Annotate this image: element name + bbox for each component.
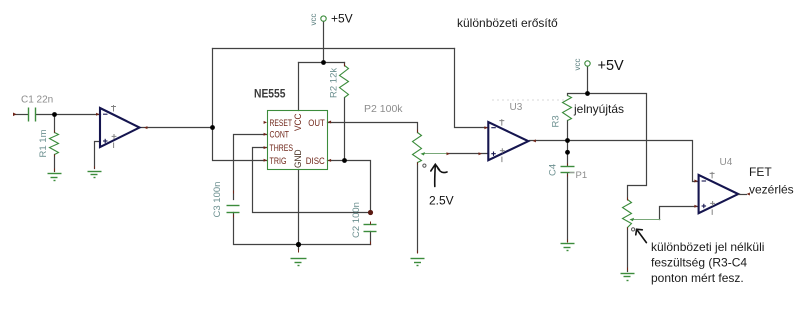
wire op-amp U1 output to node B: [141, 127, 213, 129]
annotation arrow to P3 wiper: [636, 229, 647, 242]
potentiometer P3 tap circle: [632, 228, 635, 231]
wire C1 to node A: [37, 114, 101, 116]
op-amp U1 input polarity glyphs: [103, 114, 108, 143]
R3 output junction dot: [565, 138, 570, 143]
resistor R2: [340, 66, 349, 98]
wire subrail to R2 top: [344, 63, 346, 66]
potentiometer P3 body: [623, 200, 632, 228]
wire P3 bottom to ground: [627, 228, 629, 272]
svg-text:különbözeti jel nélküli: különbözeti jel nélküli: [651, 240, 764, 254]
svg-text:P1: P1: [576, 170, 588, 181]
wire C3 bottom to ground rail: [234, 213, 371, 245]
pin arrow OUT: [328, 121, 331, 124]
svg-text:+5V: +5V: [331, 12, 353, 26]
pin arrow C1 left tip: [13, 113, 17, 117]
wire top rail down to U3 minus input: [455, 49, 489, 128]
ground G3 under NE555 GND pin: [291, 259, 307, 266]
svg-text:+5V: +5V: [598, 58, 625, 74]
pin arrow U1 minus input: [96, 113, 99, 116]
wire DISC to corner: [328, 161, 371, 213]
NE555 GND rail junction dot: [296, 242, 301, 247]
svg-text:R3: R3: [551, 115, 562, 127]
ground G5 under C4: [561, 244, 575, 251]
capacitor C1: [29, 108, 36, 122]
potentiometer P2 wiper arrow: [421, 152, 449, 155]
potentiometer P2 body: [413, 133, 422, 163]
svg-text:DISC: DISC: [306, 156, 325, 166]
svg-text:NE555: NE555: [254, 89, 286, 101]
pin arrow U3 minus input: [484, 126, 487, 129]
P1 leader line: [570, 172, 575, 174]
ground G1 under R1: [48, 174, 62, 181]
capacitor C2: [364, 225, 377, 232]
wire THRES left and down to C2 junction: [253, 148, 371, 213]
svg-text:vcc: vcc: [309, 14, 318, 26]
pin arrow THRES: [264, 146, 267, 149]
wire R1 to ground: [54, 155, 56, 172]
supply circle VCC left: [321, 16, 326, 21]
pin end ticks (dark red): [55, 64, 628, 271]
op-amp U4 input polarity glyphs: [702, 181, 707, 208]
node A junction dot: [52, 112, 57, 117]
svg-text:CONT: CONT: [270, 129, 290, 139]
svg-text:feszültség (R3-C4: feszültség (R3-C4: [651, 256, 747, 270]
wire output node down to C4: [567, 141, 569, 166]
wire NE555 GND pin down: [298, 170, 300, 250]
vcc left junction dot: [321, 60, 326, 65]
C2 THRES DISC junction dot (maroon): [368, 210, 373, 215]
NE555 pin names: [270, 113, 326, 168]
svg-text:C3 100n: C3 100n: [212, 182, 223, 218]
svg-text:VCC: VCC: [293, 113, 303, 131]
pin arrow TRIG: [264, 159, 267, 162]
svg-text:RESET: RESET: [270, 118, 293, 128]
node B junction dot: [210, 125, 215, 130]
ground G6 under P3: [621, 274, 635, 281]
wire C2 bottom lead: [370, 232, 372, 245]
wire right vcc junction to P3 top: [588, 94, 647, 200]
pin arrows dark red: [13, 113, 750, 208]
svg-text:2.5V: 2.5V: [429, 194, 454, 208]
op-amp U4 power pins: [710, 172, 715, 215]
op-amp U4 triangle: [699, 175, 739, 213]
wire right vcc supply down: [587, 67, 589, 94]
resistor R3: [563, 96, 572, 121]
potentiometer P3 wiper arrow: [630, 218, 661, 221]
svg-text:R1 1m: R1 1m: [38, 129, 49, 157]
svg-text:C2 100n: C2 100n: [351, 202, 362, 238]
svg-text:C4: C4: [548, 164, 559, 176]
wire R2 bottom to DISC junction: [344, 98, 346, 161]
wire subrail to NE555 VCC pin: [298, 63, 300, 111]
capacitor C3: [227, 206, 240, 213]
op-amp U3 power pins: [499, 119, 504, 162]
wire OUT to P2 top: [328, 123, 418, 133]
wire op-amp U1 plus input to ground: [95, 142, 100, 169]
svg-text:GND: GND: [293, 149, 303, 168]
op-amp U3 input polarity glyphs: [491, 128, 496, 156]
svg-text:U4: U4: [720, 157, 733, 168]
pin arrow P2 wiper mid: [447, 152, 450, 155]
capacitor C4: [561, 167, 575, 173]
svg-text:vezérlés: vezérlés: [749, 183, 794, 197]
op-amp U4 output stub: [738, 194, 747, 196]
pin arrow RESET: [264, 121, 267, 124]
resistor R1: [50, 133, 59, 155]
wire node B down to TRIG: [213, 128, 267, 161]
wire C1 input stub: [15, 114, 28, 116]
svg-text:vcc: vcc: [573, 59, 582, 71]
op-amp U3 triangle: [488, 122, 528, 160]
ground G4 under P2: [411, 259, 425, 266]
annotation arrow to P2 wiper (2.5V): [431, 164, 447, 186]
svg-text:OUT: OUT: [308, 118, 325, 128]
wire vcc supply down: [323, 22, 325, 63]
wire P2 wiper to U3 plus input: [449, 153, 489, 155]
op-amp U1 power pins: [111, 105, 116, 148]
pin arrow U4 plus input: [694, 205, 697, 208]
wire top rail horizontal: [213, 48, 455, 50]
wire P2 bottom to ground: [417, 163, 419, 253]
NE555 IC body box: [268, 111, 328, 170]
ground G2 under op-amp U1 plus input: [88, 172, 102, 178]
svg-text:U3: U3: [510, 102, 523, 113]
supply circle VCC right: [585, 61, 590, 66]
wire U3 output to U4 minus input: [530, 141, 699, 182]
wire vcc subrail: [299, 62, 345, 64]
svg-text:THRES: THRES: [270, 143, 294, 153]
wire C4 bottom to ground: [567, 174, 569, 242]
pin arrow CONT: [264, 133, 267, 136]
pin arrow U4 output: [747, 193, 750, 196]
svg-text:ponton mért fesz.: ponton mért fesz.: [651, 271, 744, 285]
svg-text:TRIG: TRIG: [270, 156, 287, 166]
potentiometer P2 tap circle: [423, 164, 426, 167]
wire right vcc junction to R3 top: [568, 94, 588, 96]
wire P3 wiper to U4 plus input: [660, 207, 699, 220]
pin arrow U1 output: [144, 126, 147, 129]
wire node B up to top rail: [212, 49, 214, 128]
svg-text:C1 22n: C1 22n: [21, 95, 53, 106]
vcc right junction dot: [585, 91, 590, 96]
svg-text:különbözeti erősítő: különbözeti erősítő: [457, 16, 558, 30]
wire R3 bottom to output wire: [567, 121, 569, 141]
svg-text:R2 12k: R2 12k: [329, 68, 340, 98]
op-amp U1 triangle: [100, 108, 140, 147]
pin arrow DISC: [328, 159, 331, 162]
DISC junction dot: [342, 158, 347, 163]
C4 top junction dot: [565, 150, 570, 155]
pin arrow U3 output: [533, 139, 536, 142]
pin arrow U3 plus entry: [479, 152, 482, 155]
faint dotted guide line near U3: [492, 99, 566, 101]
svg-text:P2 100k: P2 100k: [364, 103, 403, 115]
pin arrow U4 minus input: [694, 180, 697, 183]
svg-text:jelnyújtás: jelnyújtás: [573, 102, 624, 116]
wire CONT to C3: [234, 135, 267, 200]
wire node A down to R1: [54, 115, 56, 133]
svg-text:FET: FET: [749, 165, 772, 179]
